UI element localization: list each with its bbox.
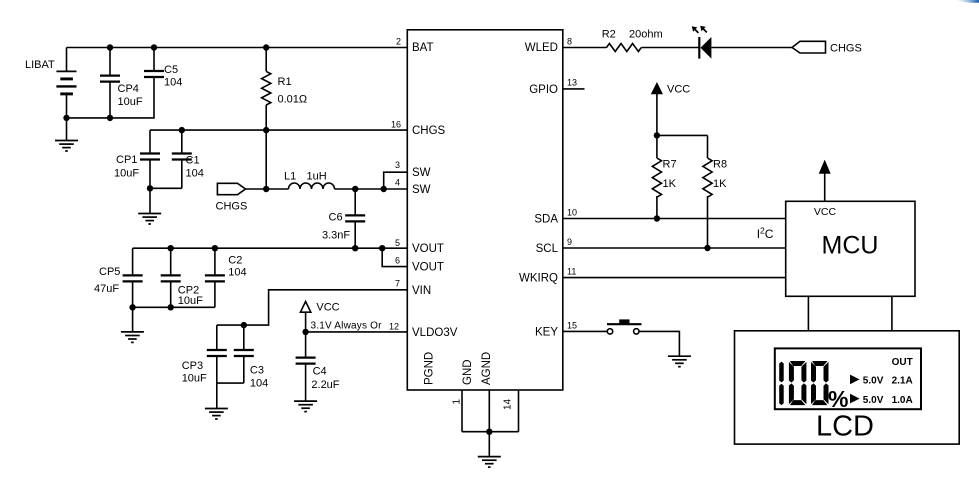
svg-text:5: 5	[395, 238, 400, 248]
svg-text:LCD: LCD	[816, 411, 874, 443]
svg-text:CP4: CP4	[118, 83, 139, 95]
svg-text:13: 13	[567, 78, 577, 88]
svg-text:C1: C1	[186, 155, 200, 167]
svg-text:15: 15	[567, 320, 577, 330]
svg-text:I2C: I2C	[757, 226, 774, 242]
svg-text:4: 4	[395, 178, 400, 188]
svg-text:C3: C3	[250, 365, 264, 377]
svg-text:0.01Ω: 0.01Ω	[278, 94, 308, 106]
svg-text:VIN: VIN	[412, 285, 431, 297]
svg-text:104: 104	[186, 168, 204, 180]
svg-text:1uH: 1uH	[307, 171, 327, 183]
svg-text:47uF: 47uF	[94, 283, 119, 295]
svg-text:R1: R1	[278, 76, 292, 88]
svg-text:VOUT: VOUT	[412, 262, 444, 274]
svg-text:MCU: MCU	[822, 232, 879, 260]
svg-text:R8: R8	[713, 159, 727, 171]
svg-text:C4: C4	[313, 366, 327, 378]
svg-text:SW: SW	[412, 167, 431, 179]
svg-text:6: 6	[395, 256, 400, 266]
svg-text:SCL: SCL	[536, 243, 559, 255]
svg-text:SW: SW	[412, 184, 431, 196]
svg-text:12: 12	[389, 321, 399, 331]
svg-text:1.0A: 1.0A	[892, 395, 913, 406]
svg-text:10uF: 10uF	[178, 295, 203, 307]
svg-text:104: 104	[164, 77, 182, 89]
svg-text:14: 14	[503, 398, 514, 410]
svg-text:WKIRQ: WKIRQ	[519, 273, 558, 285]
svg-text:VCC: VCC	[316, 302, 339, 314]
svg-text:C2: C2	[228, 255, 242, 267]
svg-text:9: 9	[567, 237, 572, 247]
svg-text:8: 8	[567, 37, 572, 47]
svg-text:20ohm: 20ohm	[629, 29, 663, 41]
svg-text:C6: C6	[329, 212, 343, 224]
svg-text:3.1V Always Or: 3.1V Always Or	[311, 321, 383, 332]
svg-text:11: 11	[567, 267, 576, 277]
svg-text:%: %	[828, 386, 848, 412]
svg-text:C5: C5	[164, 64, 178, 76]
svg-text:3.3nF: 3.3nF	[322, 230, 350, 242]
svg-text:KEY: KEY	[535, 326, 558, 338]
svg-text:10uF: 10uF	[118, 96, 143, 108]
svg-text:VLDO3V: VLDO3V	[412, 327, 458, 339]
svg-text:L1: L1	[284, 171, 296, 183]
svg-text:CP1: CP1	[116, 154, 137, 166]
svg-text:5.0V: 5.0V	[863, 395, 884, 406]
svg-text:10: 10	[567, 208, 577, 218]
svg-text:7: 7	[395, 278, 400, 288]
svg-text:CHGS: CHGS	[830, 43, 862, 55]
svg-text:5.0V: 5.0V	[863, 376, 884, 387]
svg-text:3: 3	[395, 160, 400, 170]
svg-text:104: 104	[228, 267, 246, 279]
svg-text:GPIO: GPIO	[529, 84, 558, 96]
svg-text:AGND: AGND	[481, 352, 493, 385]
svg-text:CHGS: CHGS	[216, 201, 248, 213]
svg-text:2.2uF: 2.2uF	[311, 379, 339, 391]
svg-text:VOUT: VOUT	[412, 243, 444, 255]
svg-text:CP5: CP5	[99, 266, 120, 278]
svg-text:VCC: VCC	[814, 206, 837, 218]
svg-text:1K: 1K	[713, 178, 727, 190]
svg-text:VCC: VCC	[667, 84, 690, 96]
svg-text:1: 1	[452, 399, 463, 405]
svg-text:104: 104	[250, 378, 268, 390]
svg-text:R7: R7	[663, 159, 677, 171]
svg-text:PGND: PGND	[424, 352, 436, 385]
svg-text:R2: R2	[602, 29, 616, 41]
svg-text:SDA: SDA	[534, 214, 558, 226]
svg-text:16: 16	[391, 120, 401, 130]
svg-text:10uF: 10uF	[114, 168, 139, 180]
svg-text:2: 2	[396, 37, 401, 47]
svg-text:CP3: CP3	[182, 360, 203, 372]
svg-text:OUT: OUT	[892, 357, 913, 368]
svg-text:10uF: 10uF	[182, 373, 207, 385]
svg-text:CHGS: CHGS	[412, 125, 446, 137]
svg-text:BAT: BAT	[412, 42, 434, 54]
svg-text:WLED: WLED	[525, 42, 558, 54]
svg-text:GND: GND	[462, 359, 474, 385]
svg-text:2.1A: 2.1A	[892, 376, 913, 387]
svg-text:LIBAT: LIBAT	[25, 59, 55, 71]
svg-text:1K: 1K	[663, 178, 677, 190]
